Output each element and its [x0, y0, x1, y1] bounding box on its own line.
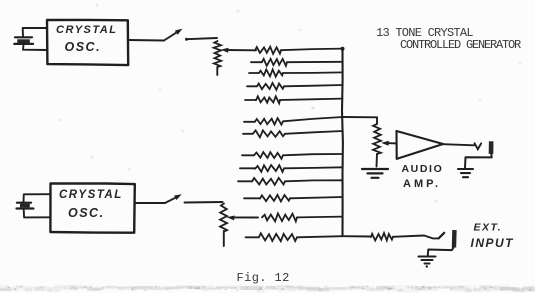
svg-text:CONTROLLED GENERATOR: CONTROLLED GENERATOR [400, 38, 521, 52]
svg-text:OSC.: OSC. [68, 206, 105, 220]
svg-text:INPUT: INPUT [471, 236, 515, 250]
svg-text:CRYSTAL: CRYSTAL [59, 189, 123, 201]
svg-text:OSC.: OSC. [65, 40, 102, 54]
svg-text:AUDIO: AUDIO [402, 163, 444, 175]
svg-text:EXT.: EXT. [474, 222, 503, 234]
svg-text:Fig. 12: Fig. 12 [237, 271, 290, 285]
svg-text:CRYSTAL: CRYSTAL [56, 24, 117, 36]
svg-text:AMP.: AMP. [403, 178, 441, 190]
